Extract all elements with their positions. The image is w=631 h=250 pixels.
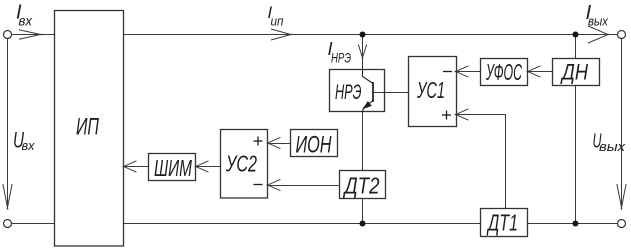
svg-text:НРЭ: НРЭ bbox=[335, 81, 362, 104]
svg-text:УФОС: УФОС bbox=[485, 59, 522, 85]
svg-text:ДН: ДН bbox=[560, 60, 589, 85]
svg-text:ШИМ: ШИМ bbox=[154, 155, 193, 181]
svg-text:ДТ1: ДТ1 bbox=[486, 210, 518, 236]
svg-text:НРЭ: НРЭ bbox=[331, 50, 351, 66]
svg-text:вх: вх bbox=[22, 138, 35, 153]
svg-text:вых: вых bbox=[599, 139, 626, 154]
svg-text:ип: ип bbox=[271, 15, 284, 29]
svg-text:ИОН: ИОН bbox=[296, 132, 332, 159]
svg-text:ИП: ИП bbox=[76, 114, 99, 141]
svg-text:ДТ2: ДТ2 bbox=[342, 173, 379, 199]
svg-text:вых: вых bbox=[588, 14, 608, 29]
svg-text:УС2: УС2 bbox=[225, 151, 257, 177]
svg-text:вх: вх bbox=[19, 14, 34, 29]
svg-text:УС1: УС1 bbox=[416, 77, 445, 103]
